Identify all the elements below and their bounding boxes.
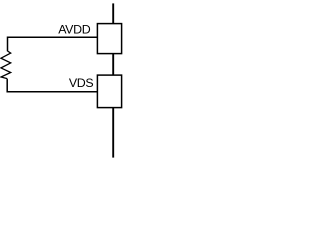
transistor U1 (upper box) [97,24,121,54]
wire bottom vertical from U2 source [112,108,114,158]
wire top vertical to U1 drain [112,3,114,23]
wire AVDD net horizontal [8,37,98,51]
transistor U2 (lower box) [97,75,121,108]
svg-text:AVDD: AVDD [58,22,91,36]
wire between boxes [112,54,114,76]
wire VDS net horizontal [7,79,97,92]
svg-text:VDS: VDS [69,76,94,90]
resistor R1 zigzag [1,51,11,79]
